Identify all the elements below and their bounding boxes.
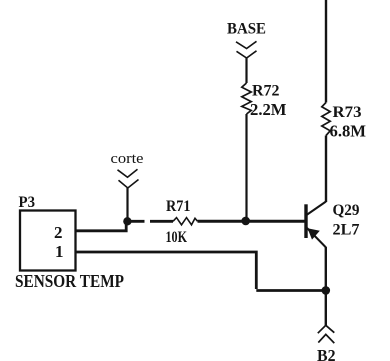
svg-text:B2: B2 — [317, 346, 336, 361]
svg-text:2L7: 2L7 — [333, 222, 360, 239]
svg-text:Q29: Q29 — [333, 202, 360, 219]
svg-text:6.8M: 6.8M — [330, 122, 367, 141]
svg-text:2: 2 — [54, 223, 63, 242]
svg-text:R72: R72 — [252, 83, 280, 100]
svg-text:2.2M: 2.2M — [250, 100, 287, 119]
svg-text:corte: corte — [111, 151, 144, 167]
svg-text:1: 1 — [55, 242, 64, 261]
svg-text:R71: R71 — [166, 198, 191, 215]
svg-text:P3: P3 — [19, 194, 36, 211]
svg-text:R73: R73 — [333, 104, 362, 121]
svg-text:SENSOR TEMP: SENSOR TEMP — [15, 271, 124, 291]
svg-text:10K: 10K — [166, 229, 188, 246]
svg-text:BASE: BASE — [227, 21, 266, 38]
